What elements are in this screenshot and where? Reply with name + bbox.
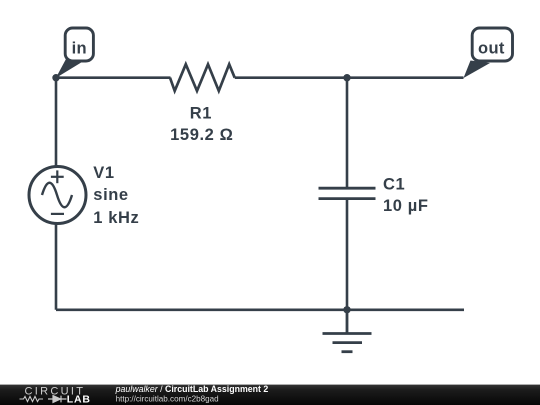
V1 sine symbol — [42, 183, 72, 208]
node flag in: dot — [52, 74, 59, 81]
wire: top net left segment (in node to R1) — [56, 76, 171, 79]
V1 plus sign — [51, 170, 64, 183]
svg-text:sine: sine — [93, 186, 128, 204]
wire: top net right segment (R1 to out tail) — [235, 76, 464, 79]
resistor R1 — [170, 64, 235, 91]
V1 minus sign — [51, 213, 64, 215]
node flag in: tail wedge — [56, 59, 81, 78]
node flag out: tail wedge — [464, 61, 491, 79]
svg-text:10 µF: 10 µF — [383, 197, 429, 215]
junction node top (out net / C1) — [343, 74, 350, 81]
svg-text:paulwalker / CircuitLab Assign: paulwalker / CircuitLab Assignment 2 — [115, 384, 269, 394]
wire: junction down to C1 top plate — [346, 78, 349, 189]
svg-text:in: in — [72, 40, 87, 58]
footer logo diode — [48, 396, 67, 403]
svg-text:C1: C1 — [383, 176, 405, 194]
wire: bottom net — [56, 308, 464, 311]
svg-text:LAB: LAB — [67, 394, 91, 405]
node flag in: box — [65, 28, 93, 61]
svg-text:159.2 Ω: 159.2 Ω — [170, 126, 233, 144]
capacitor C1 — [319, 188, 376, 198]
svg-text:http://circuitlab.com/c2b8gad: http://circuitlab.com/c2b8gad — [116, 395, 219, 404]
wire: in node down to V1 top — [55, 78, 58, 167]
wire: V1 bottom down to bottom net — [55, 223, 58, 310]
footer logo resistor squiggle — [20, 396, 44, 401]
ground — [323, 310, 372, 352]
svg-text:R1: R1 — [190, 104, 212, 122]
voltage source V1 body — [29, 167, 86, 224]
node flag out: box — [472, 28, 512, 61]
svg-text:out: out — [478, 40, 505, 58]
svg-text:V1: V1 — [93, 164, 114, 182]
svg-text:1 kHz: 1 kHz — [93, 209, 139, 227]
junction node bottom (ground net) — [343, 306, 350, 313]
wire: C1 bottom plate down to bottom net — [346, 199, 349, 310]
